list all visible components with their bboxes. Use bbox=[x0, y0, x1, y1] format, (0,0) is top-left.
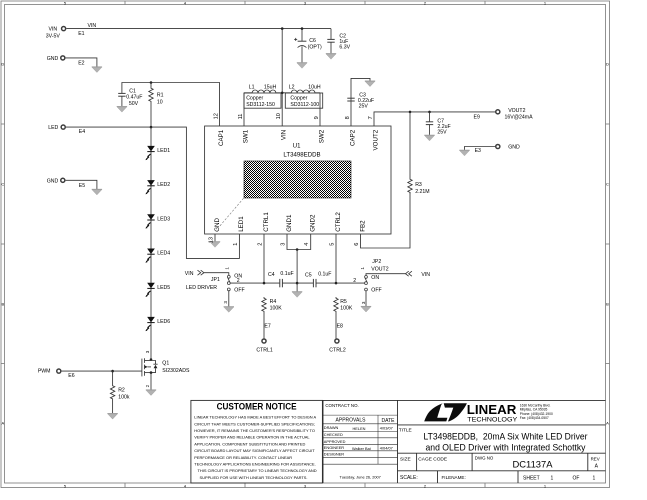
svg-text:3V-5V: 3V-5V bbox=[46, 33, 61, 39]
svg-text:DESIGNER: DESIGNER bbox=[324, 451, 345, 456]
svg-text:A: A bbox=[1, 421, 4, 426]
svg-text:SW2: SW2 bbox=[318, 129, 325, 143]
svg-text:SCALE:: SCALE: bbox=[400, 475, 418, 481]
svg-text:R2: R2 bbox=[118, 388, 125, 394]
svg-text:LED5: LED5 bbox=[157, 285, 170, 291]
svg-text:E7: E7 bbox=[264, 324, 270, 330]
svg-text:L2: L2 bbox=[289, 84, 295, 90]
svg-text:E3: E3 bbox=[475, 148, 481, 154]
svg-text:E4: E4 bbox=[79, 129, 85, 135]
svg-text:CAP2: CAP2 bbox=[349, 129, 356, 146]
svg-text:CIRCUIT BOARD LAYOUT MAY SIGNI: CIRCUIT BOARD LAYOUT MAY SIGNIFICANTLY A… bbox=[194, 448, 315, 453]
svg-text:50V: 50V bbox=[129, 101, 139, 107]
svg-text:LED1: LED1 bbox=[238, 216, 245, 232]
svg-text:LED1: LED1 bbox=[157, 148, 170, 154]
svg-text:LED4: LED4 bbox=[157, 251, 170, 257]
svg-text:CTRL1: CTRL1 bbox=[263, 212, 270, 232]
svg-text:PERFORMANCE OR RELIABILITY.: PERFORMANCE OR RELIABILITY. CONTACT LINE… bbox=[194, 455, 292, 460]
svg-text:3: 3 bbox=[145, 350, 150, 353]
svg-text:13: 13 bbox=[209, 237, 215, 243]
svg-text:SUPPLIED FOR USE WITH LINEAR T: SUPPLIED FOR USE WITH LINEAR TECHNOLOGY … bbox=[200, 475, 308, 480]
svg-text:LT3498EDDB, 20mA Six White LE: LT3498EDDB, 20mA Six White LED Driver bbox=[424, 431, 588, 441]
svg-text:SIZE: SIZE bbox=[400, 456, 411, 462]
svg-text:10: 10 bbox=[276, 113, 282, 119]
svg-text:DC1137A: DC1137A bbox=[513, 459, 553, 469]
svg-text:SW1: SW1 bbox=[242, 129, 249, 143]
svg-text:3: 3 bbox=[223, 301, 228, 304]
svg-text:6: 6 bbox=[354, 243, 360, 246]
svg-text:25V: 25V bbox=[359, 103, 369, 109]
svg-text:C5: C5 bbox=[305, 272, 312, 278]
svg-text:B: B bbox=[606, 302, 609, 307]
svg-text:CUSTOMER NOTICE: CUSTOMER NOTICE bbox=[217, 402, 297, 412]
svg-text:VOUT2: VOUT2 bbox=[372, 129, 379, 150]
svg-text:9: 9 bbox=[314, 116, 320, 119]
svg-text:(OPT): (OPT) bbox=[308, 45, 322, 51]
svg-text:Fax: (408)434-0507: Fax: (408)434-0507 bbox=[520, 416, 549, 420]
svg-text:TITLE: TITLE bbox=[399, 428, 412, 434]
svg-text:10: 10 bbox=[157, 99, 163, 105]
svg-text:Q1: Q1 bbox=[162, 361, 169, 367]
svg-text:E5: E5 bbox=[79, 183, 85, 189]
svg-text:PWM: PWM bbox=[38, 368, 51, 374]
svg-text:E2: E2 bbox=[78, 61, 84, 67]
svg-text:SHEET: SHEET bbox=[523, 475, 540, 481]
svg-text:4/03/07: 4/03/07 bbox=[380, 425, 393, 430]
svg-text:2.21M: 2.21M bbox=[415, 189, 429, 195]
svg-text:2: 2 bbox=[258, 243, 264, 246]
svg-text:CTRL2: CTRL2 bbox=[329, 348, 346, 354]
svg-text:1: 1 bbox=[360, 267, 365, 270]
svg-text:SD3112-150: SD3112-150 bbox=[246, 102, 275, 108]
svg-text:LED2: LED2 bbox=[157, 182, 170, 188]
svg-text:0.1uF: 0.1uF bbox=[318, 272, 331, 278]
svg-text:CTRL2: CTRL2 bbox=[335, 212, 342, 232]
svg-text:100K: 100K bbox=[340, 306, 353, 312]
svg-text:VOUT2: VOUT2 bbox=[371, 266, 388, 272]
svg-text:25V: 25V bbox=[437, 129, 447, 135]
svg-text:E8: E8 bbox=[337, 324, 343, 330]
svg-text:15uH: 15uH bbox=[264, 84, 277, 90]
svg-text:CIRCUIT THAT MEETS CUSTOMER-SU: CIRCUIT THAT MEETS CUSTOMER-SUPPLIED SPE… bbox=[194, 421, 315, 426]
svg-text:R4: R4 bbox=[270, 299, 277, 305]
svg-text:Copper: Copper bbox=[290, 95, 307, 101]
svg-text:LED DRIVER: LED DRIVER bbox=[186, 285, 217, 291]
svg-text:B: B bbox=[1, 302, 4, 307]
svg-text:LT3498EDDB: LT3498EDDB bbox=[283, 151, 320, 158]
svg-text:R5: R5 bbox=[340, 299, 347, 305]
svg-text:APPROVALS: APPROVALS bbox=[336, 418, 367, 424]
svg-text:APPROVED: APPROVED bbox=[324, 439, 346, 444]
svg-text:12: 12 bbox=[213, 113, 219, 119]
svg-text:DWG NO: DWG NO bbox=[475, 456, 494, 461]
svg-text:JP2: JP2 bbox=[372, 259, 381, 265]
svg-text:0.47uF: 0.47uF bbox=[126, 95, 142, 101]
svg-text:LED: LED bbox=[48, 125, 58, 131]
svg-text:DRAWN: DRAWN bbox=[324, 425, 339, 430]
svg-text:LED3: LED3 bbox=[157, 216, 170, 222]
svg-text:C6: C6 bbox=[309, 38, 316, 44]
svg-text:GND: GND bbox=[47, 178, 59, 184]
svg-text:ENGINEER: ENGINEER bbox=[324, 445, 345, 450]
svg-text:VIN: VIN bbox=[49, 27, 58, 33]
svg-text:C1: C1 bbox=[129, 88, 136, 94]
svg-text:TECHNOLOGY APPLICATIONS ENGINE: TECHNOLOGY APPLICATIONS ENGINEERING FOR … bbox=[194, 462, 315, 467]
svg-text:1: 1 bbox=[233, 243, 239, 246]
svg-text:A: A bbox=[606, 421, 609, 426]
svg-text:SD3112-100: SD3112-100 bbox=[290, 102, 319, 108]
svg-text:VIN: VIN bbox=[281, 130, 288, 140]
svg-text:VOUT2: VOUT2 bbox=[508, 108, 525, 114]
svg-text:LINEAR TECHNOLOGY HAS MADE A B: LINEAR TECHNOLOGY HAS MADE A BEST EFFORT… bbox=[194, 415, 316, 420]
svg-text:16V@24mA: 16V@24mA bbox=[505, 114, 534, 120]
svg-text:E9: E9 bbox=[474, 114, 480, 120]
svg-text:1: 1 bbox=[551, 475, 554, 481]
svg-text:C4: C4 bbox=[268, 272, 275, 278]
svg-text:100k: 100k bbox=[118, 394, 130, 400]
svg-text:CAGE CODE: CAGE CODE bbox=[418, 456, 447, 462]
svg-text:U1: U1 bbox=[293, 144, 301, 150]
svg-text:OFF: OFF bbox=[234, 287, 244, 293]
svg-text:5: 5 bbox=[330, 243, 336, 246]
svg-text:TECHNOLOGY: TECHNOLOGY bbox=[467, 418, 517, 424]
svg-text:DATE: DATE bbox=[382, 418, 396, 424]
svg-text:APPLICATION. COMPONENT SUBSTI: APPLICATION. COMPONENT SUBSTITUTION AND … bbox=[194, 441, 305, 446]
svg-text:R3: R3 bbox=[415, 182, 422, 188]
svg-text:VIN: VIN bbox=[421, 272, 430, 278]
svg-text:4/04/07: 4/04/07 bbox=[380, 446, 393, 451]
svg-text:VIN: VIN bbox=[185, 271, 194, 277]
svg-text:R1: R1 bbox=[157, 92, 164, 98]
svg-text:3: 3 bbox=[281, 243, 287, 246]
svg-text:8: 8 bbox=[345, 116, 351, 119]
svg-text:11: 11 bbox=[238, 114, 244, 120]
svg-text:REV: REV bbox=[591, 456, 600, 461]
svg-text:LINEAR: LINEAR bbox=[467, 403, 517, 417]
svg-text:7: 7 bbox=[368, 116, 374, 119]
svg-text:CONTRACT NO.: CONTRACT NO. bbox=[325, 403, 358, 408]
svg-text:6.3V: 6.3V bbox=[339, 45, 350, 51]
svg-text:JP1: JP1 bbox=[211, 277, 220, 283]
svg-text:1: 1 bbox=[593, 475, 596, 481]
svg-text:Walker Bai: Walker Bai bbox=[352, 446, 371, 451]
svg-text:VERIFY PROPER AND RELIABLE OPE: VERIFY PROPER AND RELIABLE OPERATION IN … bbox=[194, 435, 310, 440]
svg-text:E6: E6 bbox=[68, 373, 74, 379]
svg-text:OF: OF bbox=[573, 475, 580, 481]
svg-text:HOWEVER, IT REMAINS THE CUSTOM: HOWEVER, IT REMAINS THE CUSTOMER'S RESPO… bbox=[194, 428, 315, 433]
svg-text:ON: ON bbox=[371, 275, 379, 281]
svg-text:FB2: FB2 bbox=[359, 220, 366, 232]
svg-text:OFF: OFF bbox=[371, 287, 381, 293]
svg-text:GND: GND bbox=[508, 144, 520, 150]
svg-text:D: D bbox=[1, 62, 4, 67]
svg-text:LED6: LED6 bbox=[157, 319, 170, 325]
svg-text:L1: L1 bbox=[249, 84, 255, 90]
svg-text:D: D bbox=[606, 62, 609, 67]
svg-text:C: C bbox=[606, 182, 609, 187]
svg-text:GND: GND bbox=[47, 56, 59, 62]
svg-text:SI2302ADS: SI2302ADS bbox=[162, 368, 190, 374]
svg-text:3: 3 bbox=[361, 301, 366, 304]
svg-text:GND2: GND2 bbox=[310, 214, 317, 232]
svg-text:and OLED Driver with Integrate: and OLED Driver with Integrated Schottky bbox=[426, 443, 586, 453]
svg-text:CAP1: CAP1 bbox=[218, 129, 225, 146]
svg-text:100K: 100K bbox=[270, 306, 283, 312]
svg-text:2: 2 bbox=[353, 278, 356, 284]
svg-text:CTRL1: CTRL1 bbox=[256, 348, 273, 354]
svg-text:Tuesday, June 26, 2007: Tuesday, June 26, 2007 bbox=[340, 475, 381, 480]
svg-text:CHECKED: CHECKED bbox=[324, 432, 343, 437]
svg-text:C: C bbox=[1, 182, 4, 187]
svg-text:E1: E1 bbox=[78, 31, 84, 37]
svg-text:THIS CIRCUIT IS PROPRIETARY TO: THIS CIRCUIT IS PROPRIETARY TO LINEAR TE… bbox=[198, 468, 317, 473]
svg-text:GND1: GND1 bbox=[286, 214, 293, 232]
svg-text:HELEN: HELEN bbox=[353, 426, 366, 431]
svg-text:FILENAME:: FILENAME: bbox=[442, 475, 466, 480]
svg-text:2: 2 bbox=[145, 384, 150, 387]
svg-text:4: 4 bbox=[304, 243, 310, 246]
svg-text:GND: GND bbox=[214, 218, 221, 232]
svg-text:0.1uF: 0.1uF bbox=[280, 271, 293, 277]
svg-text:1: 1 bbox=[224, 267, 229, 270]
svg-text:10uH: 10uH bbox=[308, 84, 321, 90]
svg-text:Copper: Copper bbox=[246, 95, 263, 101]
